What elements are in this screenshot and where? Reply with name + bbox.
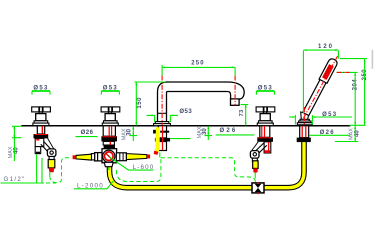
svg-text:G1/2″: G1/2″	[4, 176, 26, 183]
svg-text:73: 73	[239, 109, 245, 116]
spout mounting nut	[155, 138, 170, 142]
valve V1 hose end (yellow, red tip)	[48, 157, 55, 173]
svg-text:250: 250	[362, 69, 368, 81]
tee left nut	[91, 153, 102, 161]
valve V1 hose hex nut	[47, 149, 56, 157]
label Ø26 handshower	[309, 130, 350, 136]
dashed route spout to connector	[160, 152, 256, 182]
valve V2 mounting nut	[101, 136, 117, 141]
head red stripe	[322, 64, 334, 80]
hose union connector	[252, 182, 264, 194]
valve V1 body below nut	[35, 138, 44, 146]
dim Ø53 valve V2	[101, 86, 119, 95]
handshower base nut	[297, 138, 311, 143]
dim 30 MAX valve V2	[122, 126, 138, 141]
dim 73 spout outlet height	[239, 105, 248, 126]
dim 250 handshower height	[340, 59, 368, 126]
valve V2 below-deck shank	[103, 126, 115, 136]
spout base	[154, 122, 171, 126]
handshower axis centerline	[304, 52, 340, 125]
valve V3 below-deck shank	[260, 126, 270, 138]
dim Ø53 valve V3	[256, 86, 274, 95]
handshower holder cone	[301, 112, 309, 119]
dashed route valve V1 to tee hose	[46, 158, 72, 183]
handshower escutcheon	[297, 119, 312, 124]
dim 204 handshower head height	[337, 72, 359, 125]
tee body	[102, 149, 117, 163]
valve V2 handle	[101, 107, 120, 126]
spout outlet centerline	[234, 76, 236, 106]
valve V3 hose hex nut	[250, 151, 259, 159]
spout shank below nut	[158, 142, 166, 151]
dim Ø53 handshower holder	[289, 112, 352, 125]
wand head	[319, 57, 338, 83]
svg-text:Ø26: Ø26	[81, 130, 94, 136]
spout flexible hose (yellow, red tip)	[153, 126, 162, 155]
dashed balloon L-600	[116, 158, 161, 182]
valve V3 angled outlet branch	[252, 142, 267, 154]
valve V1 inlet collar G1/2	[35, 147, 41, 154]
tee red ring	[103, 150, 115, 162]
gray partial line top right	[371, 50, 373, 69]
dim 150 spout height	[134, 82, 165, 125]
valve V3 handle	[256, 107, 275, 126]
spout centerline	[161, 76, 163, 151]
dim Ø53 valve V1	[32, 86, 50, 95]
dim 250 spout	[162, 61, 235, 76]
valve V1 mounting nut	[34, 134, 49, 138]
valve V3 mounting nut	[257, 137, 273, 142]
svg-text:Ø26: Ø26	[220, 128, 238, 134]
tee bottom outlet	[104, 162, 113, 166]
valve V1 below-deck shank	[37, 126, 44, 134]
tee left hose stub (yellow, red tip)	[73, 154, 92, 160]
valve V3 body below nut	[264, 142, 271, 153]
valve V1 centerline	[41, 126, 43, 140]
svg-text:Ø53: Ø53	[179, 109, 192, 115]
valve V1 handle	[32, 107, 51, 126]
label L-2000	[74, 181, 114, 190]
label L-600	[110, 157, 155, 171]
svg-text:30: 30	[126, 128, 132, 135]
svg-text:150: 150	[137, 97, 143, 109]
long hose L-2000 (yellow, tee to handshower base)	[110, 142, 305, 188]
wand handle	[303, 76, 328, 116]
handshower base below-deck shank	[300, 126, 309, 138]
label Ø26 valve V1	[76, 130, 98, 136]
green leader valve V3 tip to route	[254, 173, 256, 179]
tee outlet green leader	[108, 162, 110, 170]
dim 120 handshower	[303, 44, 338, 113]
dim 40 MAX valve V1	[8, 126, 21, 161]
handshower wand assembly (rotated group)	[302, 57, 339, 116]
svg-text:120: 120	[318, 44, 334, 50]
spout tube	[158, 82, 245, 122]
valve V2 body to tee	[103, 141, 114, 145]
dim Ø53 spout base	[147, 109, 193, 122]
spout outlet	[231, 99, 240, 105]
tee top cap	[104, 145, 115, 149]
svg-text:250: 250	[191, 61, 205, 67]
deck tick for 250/204	[349, 124, 365, 126]
deck line	[21, 125, 350, 127]
label Ø26 valve V3	[216, 128, 255, 135]
spout below-deck shank	[153, 126, 169, 138]
dim 30 MAX spout	[170, 126, 212, 140]
tee right nut	[116, 153, 126, 161]
valve V3 hose end (yellow, red tip)	[252, 158, 258, 172]
valve V1 angled outlet branch	[41, 137, 54, 153]
dim MAX40 handshower base	[335, 126, 361, 142]
tee right hose stub L-600 (yellow, red tip)	[126, 154, 150, 160]
label G1/2"	[1, 155, 44, 184]
svg-text:30: 30	[202, 128, 208, 135]
